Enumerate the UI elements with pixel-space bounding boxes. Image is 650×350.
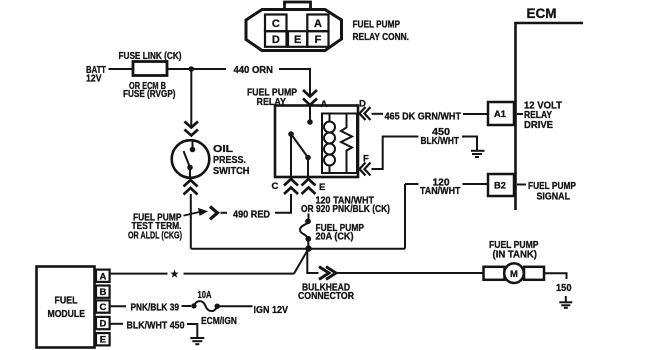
svg-text:FUSE LINK (CK): FUSE LINK (CK) (119, 51, 182, 62)
svg-text:C: C (99, 302, 106, 313)
svg-text:OIL: OIL (213, 144, 233, 155)
svg-text:MODULE: MODULE (48, 309, 86, 320)
svg-text:PNK/BLK 39: PNK/BLK 39 (131, 303, 180, 314)
svg-text:ECM: ECM (527, 6, 557, 21)
svg-text:SWITCH: SWITCH (213, 166, 250, 177)
svg-text:490 RED: 490 RED (233, 210, 270, 221)
svg-text:465 DK GRN/WHT: 465 DK GRN/WHT (385, 112, 462, 123)
svg-text:FUEL PUMP: FUEL PUMP (353, 20, 401, 31)
svg-text:D: D (272, 34, 280, 46)
svg-text:IGN 12V: IGN 12V (254, 305, 289, 316)
svg-text:C: C (272, 18, 280, 30)
svg-text:E: E (294, 34, 301, 46)
svg-text:10A: 10A (198, 290, 212, 301)
svg-text:FUEL: FUEL (55, 296, 78, 307)
svg-text:B2: B2 (494, 180, 506, 190)
svg-text:SIGNAL: SIGNAL (537, 192, 571, 203)
svg-text:D: D (359, 98, 366, 109)
svg-text:FUSE (RVGP): FUSE (RVGP) (123, 89, 176, 100)
svg-text:E: E (319, 182, 325, 193)
svg-text:F: F (363, 154, 369, 165)
svg-text:D: D (99, 318, 106, 329)
svg-text:12V: 12V (86, 74, 102, 85)
svg-text:BLK/WHT: BLK/WHT (421, 136, 460, 147)
svg-text:20A (CK): 20A (CK) (316, 232, 354, 243)
svg-text:C: C (272, 181, 279, 192)
svg-text:OR ALDL (CKG): OR ALDL (CKG) (128, 231, 182, 242)
svg-text:A1: A1 (494, 109, 506, 119)
svg-text:E: E (100, 335, 106, 346)
svg-text:150: 150 (556, 282, 572, 294)
svg-text:OR 920 PNK/BLK (CK): OR 920 PNK/BLK (CK) (301, 204, 390, 215)
svg-text:RELAY: RELAY (257, 97, 287, 108)
svg-text:RELAY CONN.: RELAY CONN. (353, 32, 410, 43)
svg-text:B: B (99, 287, 106, 298)
svg-text:BLK/WHT 450: BLK/WHT 450 (127, 321, 185, 332)
svg-text:ECM/IGN: ECM/IGN (201, 316, 237, 327)
svg-text:CONNECTOR: CONNECTOR (298, 291, 355, 302)
svg-text:(IN TANK): (IN TANK) (493, 250, 538, 261)
svg-text:A: A (321, 99, 328, 110)
svg-text:A: A (99, 271, 106, 282)
svg-text:PRESS.: PRESS. (213, 155, 246, 166)
svg-text:440 ORN: 440 ORN (234, 65, 274, 76)
svg-text:A: A (314, 18, 322, 30)
svg-text:M: M (510, 269, 518, 280)
svg-text:DRIVE: DRIVE (524, 120, 553, 131)
svg-text:TAN/WHT: TAN/WHT (420, 186, 461, 197)
svg-text:F: F (315, 34, 322, 46)
